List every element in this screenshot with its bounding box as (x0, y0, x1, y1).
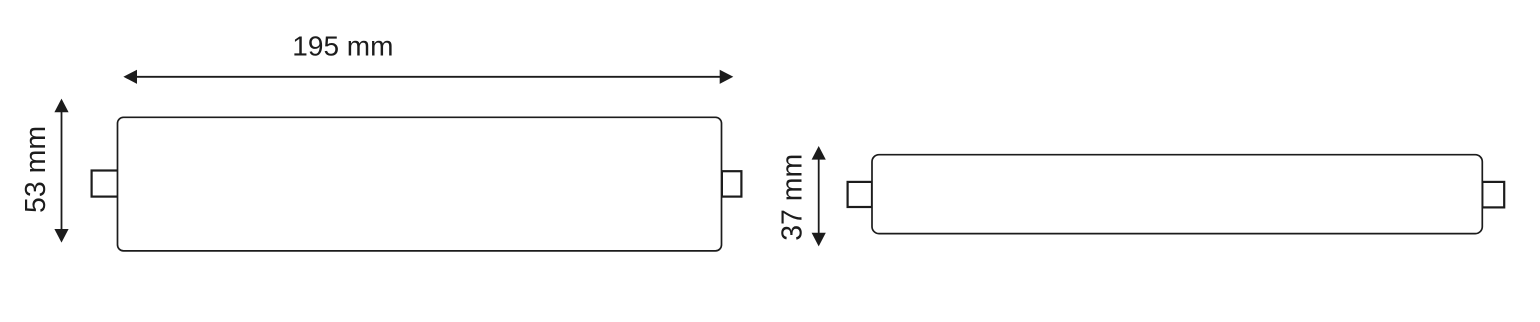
svg-text:53 mm: 53 mm (20, 126, 52, 213)
svg-text:195 mm: 195 mm (292, 30, 393, 61)
svg-text:37 mm: 37 mm (776, 154, 808, 241)
